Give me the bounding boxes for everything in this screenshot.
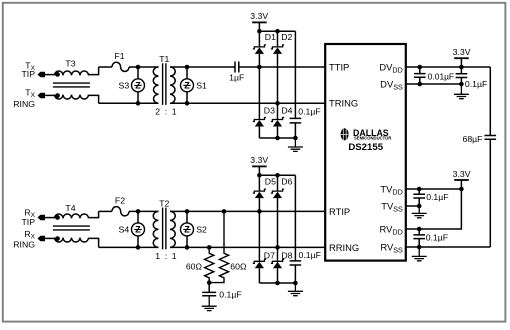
svg-text:TTIP: TTIP bbox=[329, 61, 349, 72]
wire TTIP cap to IC bbox=[239, 66, 325, 68]
surge protector S1 branch wire bbox=[186, 67, 188, 103]
transformer T3 secondary winding bbox=[55, 95, 89, 99]
node TRING D4 bbox=[275, 101, 280, 106]
ground RVSS bbox=[412, 247, 427, 261]
capacitor 0.1uF RVDD bbox=[413, 229, 425, 247]
svg-text:3.3V: 3.3V bbox=[250, 11, 268, 21]
node rail D1 bbox=[257, 29, 262, 34]
svg-text:D5: D5 bbox=[265, 176, 276, 186]
diode D3 bbox=[253, 118, 266, 122]
wire D3 cathode from TTIP bbox=[258, 67, 260, 120]
wire D7 anode to rail bbox=[258, 268, 260, 283]
svg-text:T4: T4 bbox=[65, 203, 75, 213]
wire 3.3V stem DVDD bbox=[460, 58, 462, 67]
Z strike S1 bbox=[183, 84, 190, 86]
svg-text:F2: F2 bbox=[115, 195, 125, 205]
ground DVSS bbox=[454, 84, 469, 99]
wire TRING T1 to IC bbox=[170, 102, 325, 104]
node TTIP D1 bbox=[257, 65, 262, 70]
wire 3.3V to cap column top network bbox=[294, 31, 296, 118]
node RTIP resistor bbox=[222, 209, 227, 214]
node S4 top bbox=[136, 209, 141, 214]
svg-text:0.1µF: 0.1µF bbox=[219, 289, 241, 299]
capacitor 0.1uF bottom network bbox=[290, 261, 302, 265]
node TVDD 3.3V bbox=[459, 187, 464, 192]
svg-text:T3: T3 bbox=[65, 59, 75, 69]
svg-text:T1: T1 bbox=[159, 54, 169, 64]
wire D4 anode to rail bbox=[277, 127, 279, 139]
wire T4 primary out with step up bbox=[89, 211, 99, 217]
transformer T2 primary winding bbox=[153, 211, 158, 247]
wire ground rail bottom network bbox=[259, 282, 295, 284]
wire fuse F2 to T2 bbox=[129, 210, 159, 212]
wire TVSS pin bbox=[406, 205, 419, 207]
svg-text:S3: S3 bbox=[119, 80, 130, 90]
capacitor 0.1uF DVDD bbox=[456, 67, 468, 84]
diode D7 bbox=[253, 259, 266, 263]
surge protector S3 bbox=[132, 79, 145, 92]
ground top network bbox=[288, 138, 303, 151]
svg-text:0.1µF: 0.1µF bbox=[298, 106, 320, 116]
IC U1 DS2155 bbox=[325, 44, 406, 261]
resistor 60ohm left bbox=[205, 247, 214, 282]
node resistor join bbox=[207, 280, 212, 285]
diode D8 bbox=[271, 259, 284, 263]
terminal Tx RING bbox=[38, 93, 46, 98]
node S1 bottom bbox=[185, 101, 190, 106]
terminal Tx TIP bbox=[38, 72, 46, 77]
node rail D5 bbox=[257, 173, 262, 178]
terminal Rx TIP bbox=[38, 215, 46, 220]
svg-text:0.1µF: 0.1µF bbox=[299, 250, 321, 260]
transformer T2 core bbox=[163, 208, 166, 250]
wire right rail down bbox=[489, 67, 491, 136]
svg-text:3.3V: 3.3V bbox=[453, 169, 471, 179]
node RRING resistor bbox=[207, 245, 212, 250]
node DVDD cap bbox=[418, 65, 423, 70]
node RVSS bbox=[417, 245, 422, 250]
svg-text:3.3V: 3.3V bbox=[250, 155, 268, 165]
svg-text:D6: D6 bbox=[281, 176, 292, 186]
svg-text:DS2155: DS2155 bbox=[348, 142, 383, 153]
wire D6 cathode bbox=[277, 175, 279, 191]
node TVDD cap bbox=[417, 187, 422, 192]
svg-text:T2: T2 bbox=[159, 198, 169, 208]
capacitor 68uF bbox=[485, 136, 497, 140]
wire cap to ground rail bottom bbox=[294, 265, 296, 283]
svg-text:D4: D4 bbox=[281, 105, 292, 115]
Z strike S3 bbox=[134, 84, 141, 86]
surge protector S2 bbox=[181, 223, 194, 236]
diode D5 bbox=[253, 189, 266, 193]
ground TVSS bbox=[412, 206, 427, 218]
power 3.3V rail DVDD bbox=[454, 57, 469, 59]
surge protector S1 bbox=[181, 79, 194, 92]
diode D2 bbox=[271, 45, 284, 49]
wire TVDD pin bbox=[406, 188, 462, 190]
transformer T1 secondary winding bbox=[170, 67, 175, 103]
capacitor 0.1uF termination bbox=[202, 283, 216, 296]
wire ground rail top network bbox=[259, 137, 295, 139]
svg-text:1µF: 1µF bbox=[229, 72, 244, 82]
node TVSS bbox=[417, 204, 422, 209]
node S1 top bbox=[185, 65, 190, 70]
wire bottom Tx rail to T1 bbox=[99, 102, 159, 104]
node rail D6 bbox=[275, 173, 280, 178]
node S4 bottom bbox=[136, 245, 141, 250]
wire 3.3V stem TVDD bbox=[460, 180, 462, 189]
node ground rail cap bottom bbox=[293, 281, 298, 286]
wire RTIP T2 to IC bbox=[170, 210, 325, 212]
wire D7 cathode from RTIP bbox=[258, 211, 260, 261]
svg-text:S4: S4 bbox=[119, 225, 130, 235]
wire D3 anode to rail bbox=[258, 127, 260, 139]
wire 3.3V node rail bottom bbox=[259, 174, 295, 176]
surge protector Z glyphs bbox=[135, 80, 190, 234]
node RVDD cap bbox=[417, 227, 422, 232]
wire D2 cathode bbox=[277, 31, 279, 47]
surge protector S3 branch wire bbox=[137, 67, 139, 103]
node DVSS ground bbox=[459, 82, 464, 87]
wire DVSS pin bbox=[406, 83, 462, 85]
polarity dot T3 secondary bbox=[55, 93, 60, 98]
ground bottom network bbox=[288, 283, 303, 296]
svg-text:RTIP: RTIP bbox=[329, 206, 350, 217]
node rail D2 bbox=[275, 29, 280, 34]
wire D5 anode to RTIP bbox=[258, 198, 260, 211]
node RTIP D5 bbox=[257, 209, 262, 214]
wire T3 secondary out with step down bbox=[89, 95, 99, 103]
power 3.3V rail bottom network bbox=[252, 165, 267, 167]
svg-text:0.1µF: 0.1µF bbox=[426, 192, 448, 202]
svg-text:60Ω: 60Ω bbox=[230, 261, 247, 271]
svg-text:SEMICONDUCTOR: SEMICONDUCTOR bbox=[354, 135, 391, 140]
wire RRING T2 to IC bbox=[170, 246, 325, 248]
svg-text:D2: D2 bbox=[281, 32, 292, 42]
wire D5 cathode bbox=[258, 175, 260, 191]
wire TVDD to RVDD bbox=[406, 189, 462, 229]
svg-text:F1: F1 bbox=[114, 51, 124, 61]
wire D2 anode to TRING bbox=[277, 54, 279, 103]
transformer T4 core bbox=[53, 226, 90, 230]
svg-text:RRING: RRING bbox=[329, 242, 359, 253]
svg-text:RING: RING bbox=[13, 239, 35, 249]
svg-text:D3: D3 bbox=[264, 105, 275, 115]
power 3.3V rail top bbox=[252, 21, 267, 23]
Z strike S2 bbox=[183, 229, 190, 231]
wire bottom Rx rail to T2 bbox=[99, 246, 159, 248]
surge protector S4 branch wire bbox=[137, 211, 139, 247]
diode D4 bbox=[271, 118, 284, 122]
node DVSS cap bbox=[418, 82, 423, 87]
svg-text:0.1µF: 0.1µF bbox=[426, 232, 448, 242]
fuse F1 bbox=[112, 62, 129, 71]
wire Rx RING to T4 bbox=[45, 237, 55, 239]
svg-text:3.3V: 3.3V bbox=[453, 47, 471, 57]
wire D1 cathode bbox=[258, 31, 260, 47]
transformer T2 secondary winding bbox=[170, 211, 175, 247]
svg-text:60Ω: 60Ω bbox=[186, 261, 203, 271]
node S2 bottom bbox=[185, 245, 190, 250]
wire Tx TIP to T3 bbox=[45, 74, 55, 76]
capacitor 0.1uF top network bbox=[290, 118, 302, 123]
svg-text:TRING: TRING bbox=[329, 98, 358, 109]
node RRING D8 bbox=[275, 245, 280, 250]
wire 3.3V stem bbox=[258, 22, 260, 31]
transformer T3 primary winding bbox=[55, 71, 89, 75]
terminal Rx RING bbox=[38, 236, 46, 241]
power 3.3V rail TVDD bbox=[454, 179, 469, 181]
capacitor 0.1uF TVDD bbox=[413, 189, 425, 206]
node ground rail D4 bbox=[275, 136, 280, 141]
wire 3.3V stem bottom bbox=[258, 166, 260, 175]
polarity dot T4 secondary bbox=[55, 236, 60, 241]
transformer T3 core bbox=[53, 83, 90, 87]
logo DALLAS mark bbox=[341, 128, 349, 141]
svg-text:RING: RING bbox=[13, 99, 35, 109]
transformer T4 primary winding bbox=[55, 214, 89, 218]
diode D6 bbox=[271, 189, 284, 193]
wire D8 cathode from RRING bbox=[277, 247, 279, 261]
resistor 60ohm right bbox=[209, 211, 228, 282]
transformer T4 secondary winding bbox=[55, 238, 89, 242]
wire RVSS pin bbox=[406, 246, 491, 248]
svg-text:S1: S1 bbox=[196, 80, 207, 90]
transformer T1 primary winding bbox=[153, 67, 158, 103]
svg-text:68µF: 68µF bbox=[463, 134, 483, 144]
wire T3 primary out with step up bbox=[89, 67, 99, 75]
surge protector S4 bbox=[132, 223, 145, 236]
wire D8 anode to rail bbox=[277, 268, 279, 283]
wire T4 secondary out with step down bbox=[89, 238, 99, 247]
svg-text:1 : 1: 1 : 1 bbox=[155, 251, 177, 261]
polarity dot T3 primary bbox=[55, 72, 60, 77]
wire Tx RING to T3 bbox=[45, 94, 55, 96]
capacitor 0.01uF bbox=[414, 67, 426, 84]
node ground rail cap bbox=[293, 136, 298, 141]
node S3 top bbox=[136, 65, 141, 70]
wire 3.3V to cap column bottom network bbox=[294, 175, 296, 261]
diode D1 bbox=[253, 45, 266, 49]
svg-text:2 : 1: 2 : 1 bbox=[155, 107, 177, 117]
surge protector S2 branch wire bbox=[186, 211, 188, 247]
node S2 top bbox=[185, 209, 190, 214]
wire right rail lower bbox=[489, 139, 491, 247]
svg-text:D1: D1 bbox=[265, 32, 276, 42]
svg-text:0.1µF: 0.1µF bbox=[465, 79, 487, 89]
wire D4 cathode from TRING bbox=[277, 103, 279, 119]
wire fuse F1 to T1 bbox=[129, 66, 159, 68]
svg-text:TIP: TIP bbox=[21, 217, 35, 227]
wire D6 anode to RRING bbox=[277, 198, 279, 247]
wire D1 anode to TTIP bbox=[258, 54, 260, 67]
polarity dot T4 primary bbox=[55, 215, 60, 220]
svg-text:D7: D7 bbox=[264, 250, 275, 260]
svg-text:D8: D8 bbox=[281, 250, 292, 260]
wire cap to ground rail bbox=[294, 123, 296, 138]
node S3 bottom bbox=[136, 101, 141, 106]
svg-text:S2: S2 bbox=[196, 225, 207, 235]
Z strike S4 bbox=[134, 229, 141, 231]
capacitor 1uF bbox=[235, 62, 239, 73]
wire top Tx rail to fuse bbox=[99, 66, 112, 68]
fuse F2 bbox=[112, 207, 129, 216]
transformer T1 core bbox=[163, 63, 166, 105]
svg-text:TIP: TIP bbox=[21, 69, 35, 79]
wire top Rx rail to fuse bbox=[99, 210, 112, 212]
wire Rx TIP to T4 bbox=[45, 217, 55, 219]
node ground rail D8 bbox=[275, 281, 280, 286]
ground termination bbox=[202, 296, 217, 311]
svg-text:0.01µF: 0.01µF bbox=[428, 71, 454, 81]
wire T1 secondary top to capacitor C1 bbox=[170, 66, 235, 68]
node DVDD 3.3V bbox=[459, 65, 464, 70]
wire DVDD pin bbox=[406, 66, 491, 68]
wire 3.3V node rail bbox=[259, 30, 295, 32]
